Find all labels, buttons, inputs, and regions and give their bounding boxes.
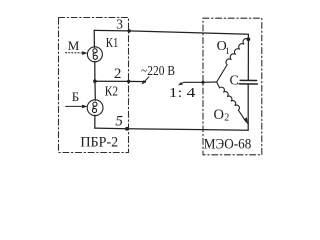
svg-text:2: 2 [224, 112, 229, 123]
label О1 [217, 39, 230, 56]
svg-text:~220 В: ~220 В [141, 64, 175, 79]
terminal dot on МЭО edge (node 2 side) [201, 81, 204, 84]
wire: K1 riser [93, 30, 95, 47]
wire: bottom bus (node 5 line) [95, 124, 248, 130]
terminal 5 dot on box edge [125, 127, 129, 131]
МЭО-68 enclosure box (dash-dot) [203, 18, 262, 155]
wire: K2 bottom to bottom bus corner [94, 115, 96, 128]
svg-text:МЭО-68: МЭО-68 [204, 137, 252, 153]
junction dot at top of right branch [247, 37, 251, 41]
contact K1 (sealed contact in circle) [87, 47, 102, 62]
contact K2 (sealed contact in circle) [87, 100, 103, 116]
wire: right branch upper (junction to capacitor top plate) [247, 39, 249, 80]
capacitor C bottom plate [239, 83, 257, 85]
wire: junction to K2 top [94, 81, 96, 100]
capacitor C top plate [240, 79, 256, 81]
svg-text:Б: Б [72, 89, 79, 104]
winding О1 (coil from top junction to star point C) [217, 39, 249, 82]
label О2 [214, 107, 230, 123]
svg-text:М: М [68, 38, 80, 53]
svg-text:С: С [230, 74, 239, 89]
terminal 3 dot on box edge [128, 29, 131, 32]
wire: stub from terminal 2 to supply arrow [129, 80, 146, 82]
svg-text:1: 1 [225, 46, 230, 56]
junction dot at node-2 tee [93, 79, 97, 83]
svg-text:ПБР-2: ПБР-2 [80, 134, 118, 150]
terminal 2 dot on box edge [127, 80, 130, 83]
wire: node 2 horizontal to box edge [95, 80, 129, 82]
svg-text:К1: К1 [106, 36, 119, 51]
svg-text:К2: К2 [105, 85, 118, 100]
svg-text:3: 3 [116, 17, 123, 32]
arrowhead at О2 end into junction [244, 117, 248, 124]
supply arrow left (leader of ~220 В) [142, 77, 149, 85]
wire: node-2 continuation into МЭО (stub with arrow) [178, 82, 217, 85]
wire: K1 bottom to node-2 junction [94, 61, 96, 81]
winding О2 (coil from star point C to bottom junction) [217, 82, 246, 121]
svg-text:2: 2 [114, 66, 122, 82]
arrow М (dotted leader to K1) [66, 51, 88, 55]
wire: right branch lower (capacitor bottom plate to bottom corner) [247, 84, 249, 124]
svg-text:1: 4: 1: 4 [169, 86, 196, 101]
wire: top bus from K1 riser to right branch (node 3 line) [94, 30, 248, 39]
ПБР-2 enclosure box (dash-dot) [59, 18, 129, 153]
svg-text:О: О [214, 107, 224, 123]
arrow Б (leader to K2) [66, 105, 88, 109]
svg-text:5: 5 [115, 114, 123, 130]
